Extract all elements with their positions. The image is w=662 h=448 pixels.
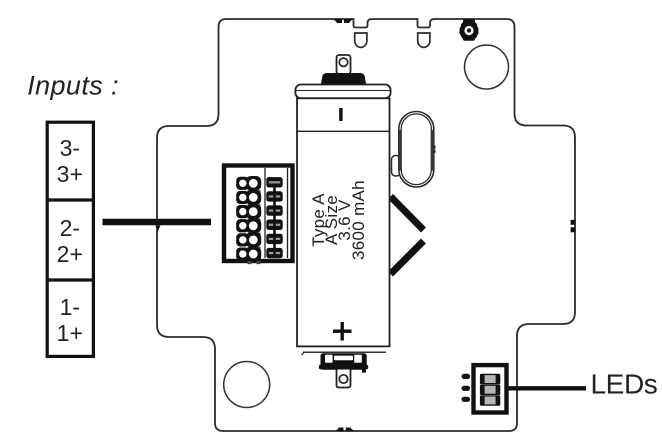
PCB outline bbox=[157, 19, 575, 431]
terminal clamps bbox=[236, 176, 261, 264]
battery bottom tab hole bbox=[339, 375, 347, 383]
wire-slot U1 bbox=[355, 33, 367, 47]
inputs wire arrow tick bbox=[156, 226, 161, 232]
svg-text:2-: 2- bbox=[60, 215, 80, 241]
svg-text:1-: 1- bbox=[60, 294, 80, 320]
battery body bbox=[297, 98, 390, 346]
battery bottom line bbox=[303, 351, 386, 353]
battery bottom tab bbox=[337, 370, 351, 388]
LEDs pointer wire bbox=[508, 386, 586, 390]
svg-text:3-: 3- bbox=[60, 135, 80, 161]
oblong hole bbox=[399, 112, 436, 188]
battery positive cap bbox=[321, 73, 366, 85]
svg-text:1+: 1+ bbox=[57, 320, 83, 346]
battery B1 bbox=[295, 55, 390, 388]
battery top tab bbox=[337, 55, 351, 74]
right edge tick bbox=[571, 220, 576, 233]
battery plus mark bbox=[333, 330, 352, 333]
top edge serration bbox=[333, 19, 353, 23]
wire-slot U2 bbox=[418, 33, 430, 47]
antenna connector screw bbox=[460, 19, 479, 41]
battery minus mark bbox=[339, 108, 342, 121]
mounting hole bottom-left bbox=[224, 362, 270, 408]
svg-text:2+: 2+ bbox=[57, 241, 83, 267]
battery top tab hole bbox=[339, 58, 347, 66]
bottom edge serration bbox=[336, 428, 355, 432]
svg-text:3600 mAh: 3600 mAh bbox=[349, 180, 368, 260]
inputs table bbox=[46, 122, 95, 356]
svg-text:Inputs :: Inputs : bbox=[27, 71, 119, 101]
LED dots bbox=[462, 374, 471, 402]
svg-text:3+: 3+ bbox=[57, 161, 83, 187]
chevron mark bbox=[391, 197, 424, 275]
battery top rim bbox=[295, 85, 390, 99]
LED indicator block bbox=[474, 365, 507, 412]
mounting hole top-right bbox=[465, 45, 509, 89]
terminal contacts bbox=[266, 177, 282, 258]
battery section line bbox=[297, 130, 390, 132]
terminal block J1 bbox=[224, 166, 293, 262]
inputs wire bbox=[103, 219, 212, 225]
battery bottom clamp bbox=[319, 353, 368, 372]
oblong hole tab bbox=[392, 156, 401, 177]
svg-text:LEDs: LEDs bbox=[591, 369, 658, 400]
